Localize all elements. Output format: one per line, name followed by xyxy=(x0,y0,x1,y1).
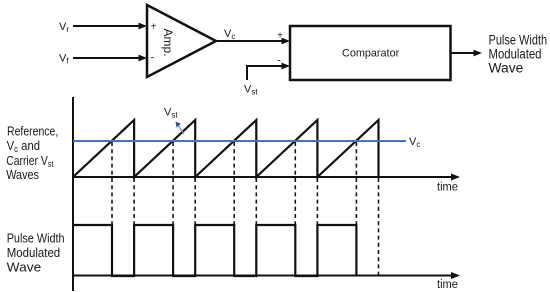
wire amp output to comparator xyxy=(216,38,290,45)
carrier sawtooth waveform Vst xyxy=(73,120,379,177)
svg-text:Pulse Width: Pulse Width xyxy=(7,231,65,246)
svg-text:Wave: Wave xyxy=(7,259,42,274)
svg-text:Reference,: Reference, xyxy=(7,124,58,139)
reference level line Vc (blue) xyxy=(73,140,406,142)
dashed guide at sawtooth reset 3 xyxy=(255,178,257,225)
wire Vst input to comparator xyxy=(247,63,290,80)
comparator U1 box xyxy=(290,26,451,80)
op-amp Amp triangle xyxy=(147,5,216,77)
node output label Pulse Width Modulated Wave xyxy=(489,32,548,75)
svg-text:Comparator: Comparator xyxy=(342,48,400,60)
dashed guide at sawtooth/Vc crossing 2 xyxy=(172,142,174,225)
wire Vst annotation arrow xyxy=(176,122,185,135)
dashed guide at sawtooth reset 2 xyxy=(194,178,196,225)
dashed guide at sawtooth reset 5 (to bottom axis) xyxy=(378,178,380,275)
pulse width modulated waveform xyxy=(73,225,356,276)
svg-text:Wave: Wave xyxy=(489,60,524,75)
svg-text:Pulse Width: Pulse Width xyxy=(489,32,548,47)
svg-text:+: + xyxy=(151,22,157,33)
wire Vr input arrow xyxy=(73,23,147,30)
plot1 time axis xyxy=(73,174,460,181)
node plot2 y-axis label Pulse Width Modulated Wave xyxy=(7,231,65,275)
dashed guide at sawtooth/Vc crossing 1 xyxy=(111,142,113,225)
dashed guide at sawtooth reset 4 xyxy=(316,178,318,225)
svg-text:time: time xyxy=(437,181,458,193)
node plot1 y-axis label Reference, Vc and Carrier Vst Waves xyxy=(6,124,58,183)
wire Vf input arrow xyxy=(73,55,147,62)
svg-text:Waves: Waves xyxy=(6,167,39,182)
svg-text:Vc and: Vc and xyxy=(7,138,40,154)
plot shared y-axis xyxy=(72,97,74,291)
svg-text:time: time xyxy=(437,279,458,291)
dashed guide at sawtooth/Vc crossing 4 xyxy=(294,142,296,225)
plot2 time axis xyxy=(73,272,460,279)
svg-text:Modulated: Modulated xyxy=(7,245,61,260)
svg-text:Amp.: Amp. xyxy=(161,28,175,56)
dashed guide at sawtooth/Vc crossing 5 xyxy=(355,142,357,225)
dashed guide at sawtooth/Vc crossing 3 xyxy=(233,142,235,225)
svg-text:+: + xyxy=(277,31,283,42)
wire comparator output arrow xyxy=(451,50,482,57)
svg-text:Modulated: Modulated xyxy=(489,46,542,61)
svg-text:-: - xyxy=(277,55,281,67)
svg-text:-: - xyxy=(151,52,155,64)
dashed guide at sawtooth reset 1 xyxy=(133,178,135,225)
